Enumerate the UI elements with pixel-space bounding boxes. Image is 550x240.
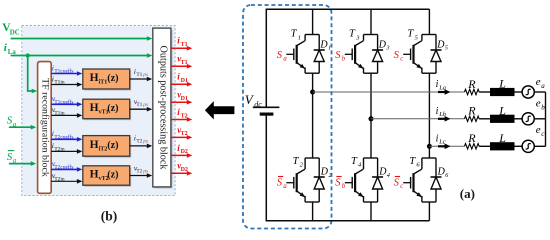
- wire top DC rail: [266, 8, 429, 10]
- wire output i_T2 red arrow: [171, 107, 192, 122]
- svg-text:T2coeffs: T2coeffs: [54, 163, 73, 170]
- svg-text:H: H: [90, 169, 99, 181]
- wire Sa-bar green arrow into TF block: [9, 161, 36, 166]
- transistor T3 (IGBT with diode D3): [345, 35, 383, 74]
- svg-text:D: D: [437, 167, 446, 178]
- wire phase b line to load: [371, 118, 465, 120]
- wire phase a line to load: [313, 91, 465, 93]
- wire output v_T1 red arrow: [171, 54, 192, 69]
- svg-text:S: S: [394, 177, 400, 188]
- node phase a junction dot: [310, 90, 315, 95]
- inductor L phase c: [490, 142, 515, 150]
- svg-text:ps: ps: [142, 102, 148, 108]
- svg-text:4: 4: [358, 161, 362, 168]
- svg-text:T2: T2: [181, 131, 188, 137]
- svg-text:L: L: [498, 77, 506, 91]
- svg-text:D2: D2: [181, 167, 188, 173]
- svg-text:3: 3: [386, 46, 390, 52]
- svg-text:H: H: [90, 72, 99, 84]
- svg-text:6: 6: [416, 161, 420, 168]
- label Sb-bar gate bottom: [335, 177, 346, 190]
- wire phase c line to load: [429, 145, 464, 147]
- label i_La current: [436, 79, 446, 91]
- svg-text:(a): (a): [460, 186, 475, 201]
- svg-text:S: S: [277, 177, 283, 188]
- svg-text:T1: T1: [181, 42, 188, 48]
- wire output v_D1 red arrow: [171, 90, 192, 105]
- svg-text:T: T: [351, 156, 358, 167]
- svg-text:6: 6: [445, 173, 448, 179]
- svg-text:T: T: [291, 29, 298, 40]
- wire output i_D2 red arrow: [171, 143, 192, 158]
- svg-text:4: 4: [387, 172, 390, 179]
- wire R to L phase b: [479, 118, 490, 120]
- svg-text:S: S: [277, 50, 283, 61]
- wire neutral bus vertical: [545, 92, 547, 146]
- svg-text:c: c: [541, 130, 545, 138]
- svg-text:e: e: [536, 98, 541, 110]
- svg-text:b: b: [342, 55, 346, 62]
- svg-text:R: R: [467, 77, 476, 91]
- label Sb gate top: [335, 50, 346, 63]
- svg-text:a: a: [283, 183, 287, 190]
- svg-text:Outputs post-processing block: Outputs post-processing block: [158, 46, 169, 171]
- wire current arrow i_Lc: [438, 144, 451, 150]
- svg-text:2: 2: [300, 161, 304, 168]
- wire output i_D1 red arrow: [171, 72, 192, 87]
- wire leg c mid vertical: [428, 73, 430, 158]
- svg-text:ps: ps: [142, 139, 148, 145]
- label e_c: [536, 124, 546, 138]
- svg-text:D: D: [319, 39, 328, 50]
- svg-text:(z): (z): [107, 140, 118, 151]
- svg-text:D: D: [378, 167, 387, 178]
- wire source e_c to neutral: [534, 145, 545, 147]
- battery Vdc plates: [253, 107, 280, 114]
- label i_Lb current: [436, 106, 447, 118]
- label D2: [320, 167, 332, 179]
- wire feed from top rail to T1: [312, 9, 314, 34]
- wire R to L phase c: [479, 145, 490, 147]
- block H_iT2(z) U3: [83, 136, 131, 158]
- svg-text:(z): (z): [107, 103, 118, 114]
- wire v_T2in arrow TF to H block: [51, 171, 82, 184]
- svg-text:i: i: [436, 133, 439, 144]
- transistor T5 (IGBT with diode D5): [403, 35, 441, 74]
- block H_vT1(z) U2: [83, 99, 131, 120]
- svg-text:a: a: [541, 82, 545, 90]
- label D6: [437, 167, 449, 179]
- svg-text:dc: dc: [254, 100, 262, 109]
- svg-text:c: c: [400, 55, 403, 62]
- svg-text:T2: T2: [136, 168, 142, 174]
- svg-text:R: R: [467, 104, 476, 118]
- big left arrow between (a) and (b): [205, 101, 235, 119]
- wire L to source phase b: [515, 118, 523, 120]
- transistor T4 (IGBT with diode D4): [345, 158, 383, 202]
- svg-text:S: S: [394, 50, 400, 61]
- svg-text:(b): (b): [101, 209, 118, 224]
- svg-text:iT1: iT1: [99, 80, 108, 86]
- label Sa gate top: [277, 50, 288, 63]
- label T4: [351, 156, 362, 169]
- svg-text:R: R: [467, 131, 476, 145]
- svg-text:2: 2: [329, 173, 332, 179]
- svg-text:b: b: [541, 104, 545, 112]
- wire v_T1ps arrow H to outputs block: [130, 97, 153, 112]
- transistor T2 (IGBT with diode D2): [286, 158, 324, 202]
- svg-text:T1in: T1in: [54, 80, 64, 86]
- svg-text:T: T: [407, 29, 414, 40]
- resistor R phase c: [465, 144, 480, 149]
- svg-text:T: T: [409, 156, 416, 167]
- block H_iT1(z) U1: [83, 69, 131, 91]
- panel (b) dashed container: [22, 26, 175, 196]
- battery Vdc label: [245, 92, 262, 109]
- wire v_T2coeffs arrow TF to H block: [51, 159, 82, 172]
- label D4: [378, 167, 390, 179]
- dashed highlight box around leg 1: [243, 5, 332, 229]
- svg-text:T2coeffs: T2coeffs: [54, 133, 73, 140]
- block H_vT2(z) U4: [83, 166, 131, 187]
- svg-text:3: 3: [355, 34, 360, 41]
- svg-text:e: e: [536, 124, 541, 136]
- svg-text:DC: DC: [10, 30, 20, 37]
- wire left DC rail upper: [265, 9, 267, 108]
- svg-text:D: D: [378, 39, 387, 50]
- wire T2 emitter to bottom rail: [312, 202, 314, 221]
- wire i_T2in arrow TF to H block: [51, 141, 82, 154]
- svg-text:D1: D1: [181, 96, 188, 102]
- inductor L phase b: [490, 115, 515, 123]
- transistor T6 (IGBT with diode D6): [403, 158, 441, 202]
- node iLa input label: [4, 42, 17, 56]
- wire i_T1ps arrow H to outputs block: [130, 67, 153, 82]
- svg-text:b: b: [342, 183, 346, 190]
- wire leg b mid vertical: [370, 73, 372, 158]
- svg-text:5: 5: [415, 34, 419, 41]
- wire v_T2ps arrow H to outputs block: [130, 163, 153, 178]
- svg-text:T1coeffs: T1coeffs: [54, 98, 73, 105]
- svg-text:T: T: [293, 156, 300, 167]
- svg-text:ps: ps: [142, 168, 148, 174]
- transistor T1 (IGBT with diode D1): [286, 35, 324, 74]
- svg-text:S: S: [335, 177, 341, 188]
- wire v_T1in arrow TF to H block: [51, 105, 82, 118]
- svg-text:L: L: [498, 131, 506, 145]
- TF reconfiguration block: [38, 62, 52, 194]
- inductor L phase a: [490, 88, 515, 96]
- label T2: [293, 156, 304, 169]
- node phase c junction dot: [427, 144, 432, 149]
- wire vDC green line into outputs block: [11, 36, 153, 41]
- svg-text:D1: D1: [181, 78, 188, 84]
- wire bottom DC rail: [266, 220, 429, 222]
- svg-text:D: D: [436, 39, 445, 50]
- svg-text:D: D: [320, 167, 329, 178]
- AC source e_b: [522, 113, 534, 125]
- wire iLa green line into outputs block: [11, 53, 153, 58]
- svg-text:ps: ps: [142, 72, 148, 78]
- svg-text:iT2: iT2: [99, 147, 108, 153]
- svg-text:T1: T1: [136, 72, 142, 78]
- svg-text:TF reconfiguration block: TF reconfiguration block: [40, 78, 51, 177]
- wire L to source phase a: [515, 91, 523, 93]
- wire source e_b to neutral: [534, 118, 545, 120]
- wire source e_a to neutral: [534, 91, 545, 93]
- svg-text:(z): (z): [107, 73, 118, 84]
- svg-text:S: S: [335, 50, 341, 61]
- svg-text:a: a: [283, 55, 287, 62]
- wire L to source phase c: [515, 145, 523, 147]
- wire Sa green arrow into TF block: [9, 125, 36, 130]
- wire v_T1coeffs arrow TF to H block: [51, 94, 82, 107]
- outputs post-processing block: [153, 28, 173, 188]
- AC source e_c: [522, 140, 534, 152]
- svg-text:5: 5: [445, 46, 448, 52]
- wire left DC rail lower: [265, 114, 267, 221]
- label T6: [409, 156, 420, 169]
- wire R to L phase a: [479, 91, 490, 93]
- svg-text:T1coeffs: T1coeffs: [54, 68, 73, 75]
- svg-text:D2: D2: [181, 149, 188, 155]
- wire output v_D2 red arrow: [171, 161, 192, 176]
- svg-text:i: i: [436, 79, 439, 90]
- svg-text:1: 1: [298, 34, 301, 41]
- node phase b junction dot: [369, 116, 374, 121]
- label T1: [291, 29, 301, 42]
- wire iLa branch down into TF block: [27, 56, 37, 94]
- AC source e_a: [522, 86, 534, 98]
- svg-text:1: 1: [328, 46, 331, 52]
- svg-text:L: L: [498, 103, 506, 117]
- svg-text:T2: T2: [181, 113, 188, 119]
- wire i_T1coeffs arrow TF to H block: [51, 63, 82, 76]
- label e_b: [536, 98, 546, 112]
- label Sa-bar gate bottom: [277, 177, 288, 190]
- svg-text:H: H: [90, 139, 99, 151]
- svg-text:T2: T2: [136, 139, 142, 145]
- resistor R phase a: [465, 89, 480, 94]
- wire T4 emitter to bottom rail: [370, 202, 372, 221]
- svg-text:T1in: T1in: [54, 110, 64, 116]
- node Sa-bar input label: [7, 151, 17, 165]
- svg-text:i: i: [436, 106, 439, 117]
- wire feed from top rail to T3: [370, 9, 372, 34]
- svg-text:T2in: T2in: [54, 146, 64, 152]
- wire output i_T1 red arrow: [171, 36, 192, 51]
- label D1: [319, 39, 331, 51]
- label D3: [378, 39, 390, 51]
- label T5: [407, 29, 418, 42]
- svg-text:H: H: [90, 102, 99, 114]
- node Sa input label: [7, 115, 17, 129]
- wire current arrow i_La: [438, 89, 451, 95]
- wire current arrow i_Lb: [438, 116, 451, 122]
- wire i_T2ps arrow H to outputs block: [130, 134, 153, 149]
- junction dot on iLa line: [26, 53, 30, 57]
- wire leg a mid vertical: [312, 73, 314, 158]
- svg-text:T1: T1: [181, 60, 188, 66]
- label i_Lc current: [436, 133, 446, 145]
- label T3: [349, 29, 360, 42]
- svg-text:T1: T1: [136, 102, 142, 108]
- svg-text:c: c: [400, 183, 403, 190]
- svg-text:(z): (z): [107, 170, 118, 181]
- label Sc-bar gate bottom: [394, 177, 404, 190]
- wire i_T1in arrow TF to H block: [51, 74, 82, 87]
- wire output v_T2 red arrow: [171, 125, 192, 140]
- svg-text:e: e: [536, 76, 541, 88]
- label D5: [436, 39, 448, 51]
- resistor R phase b: [465, 116, 480, 121]
- svg-text:T2in: T2in: [54, 176, 64, 182]
- label e_a: [536, 76, 546, 90]
- wire feed from top rail to T5: [428, 9, 430, 34]
- wire i_T2coeffs arrow TF to H block: [51, 129, 82, 142]
- svg-text:T: T: [349, 29, 356, 40]
- node vDC input label: [2, 22, 20, 37]
- label Sc gate top: [394, 50, 404, 63]
- wire T6 emitter to bottom rail: [428, 202, 430, 221]
